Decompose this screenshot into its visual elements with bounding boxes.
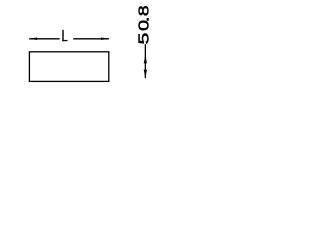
arrowhead up (points up): [144, 55, 147, 64]
svg-text:8: 8: [135, 5, 152, 16]
svg-text:5: 5: [136, 33, 152, 45]
dimension line 50.8 vertical segment: [144, 44, 146, 78]
dimension line L right segment: [73, 38, 109, 40]
rectangle part outline: [29, 52, 108, 82]
label L: [62, 30, 67, 41]
arrowhead right (points right): [101, 38, 110, 41]
arrowhead down (points down): [144, 70, 147, 79]
arrowhead left (points left): [29, 38, 37, 41]
svg-text:.: .: [137, 16, 153, 22]
label 50.8 (rotated): [135, 5, 152, 44]
dimension line L left segment: [29, 38, 59, 40]
